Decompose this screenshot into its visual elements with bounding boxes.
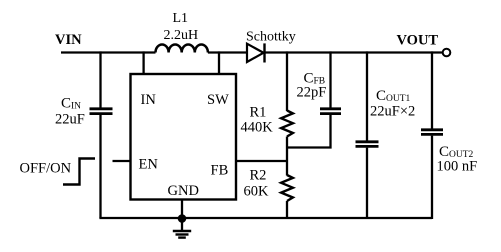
svg-text:L1: L1	[173, 11, 189, 26]
wire CFB down and left to FB node	[286, 115, 331, 148]
capacitor CFB	[320, 109, 341, 114]
wire rail down to R1	[286, 51, 288, 111]
label CIN value	[55, 96, 85, 128]
wire VIN rail down to CIN	[99, 51, 101, 107]
wire COUT2 to bottom rail	[431, 136, 433, 219]
wire rail down to SW pin	[218, 51, 220, 75]
wire VOUT down to COUT2	[431, 51, 433, 128]
pin FB label	[211, 163, 229, 179]
junction ground node	[178, 214, 187, 223]
svg-text:GND: GND	[168, 183, 199, 199]
wire L1 to diode	[208, 51, 247, 53]
label R2 value	[244, 168, 270, 200]
node VOUT label	[397, 33, 439, 49]
label L1 value	[164, 11, 199, 43]
wire R2 to bottom rail	[286, 201, 288, 218]
svg-text:100 nF: 100 nF	[437, 159, 478, 175]
capacitor CIN	[90, 109, 113, 114]
wire VIN to L1	[61, 51, 156, 53]
pin GND label	[168, 183, 199, 199]
svg-text:60K: 60K	[244, 184, 270, 200]
resistor R2	[281, 175, 293, 201]
wire CIN to bottom rail	[99, 115, 101, 218]
wire diode to VOUT	[265, 51, 443, 53]
wire EN pin	[113, 160, 132, 162]
ground	[173, 219, 191, 238]
node VIN label	[55, 32, 82, 48]
resistor R1	[281, 111, 293, 137]
diode Schottky	[247, 43, 265, 62]
node OFF/ON step waveform	[63, 159, 95, 185]
label COUT1 value	[370, 88, 415, 120]
capacitor COUT1	[356, 142, 379, 147]
svg-text:Schottky: Schottky	[246, 30, 296, 45]
label R1 value	[241, 105, 274, 136]
wire bottom rail	[99, 217, 432, 219]
svg-text:SW: SW	[207, 92, 229, 108]
svg-text:IN: IN	[141, 92, 157, 108]
wire rail down to COUT1	[366, 51, 368, 140]
svg-text:VOUT: VOUT	[397, 33, 439, 49]
pin SW label	[207, 92, 229, 108]
node OFF/ON label	[20, 161, 72, 177]
wire GND pin to ground rail	[181, 199, 183, 218]
pin EN label	[139, 157, 159, 173]
inductor L1	[156, 44, 208, 52]
wire COUT1 to bottom rail	[366, 148, 368, 218]
svg-text:VIN: VIN	[55, 32, 82, 48]
wire rail down to IN pin	[142, 51, 144, 75]
label CFB value	[297, 71, 327, 101]
pin IN label	[141, 92, 157, 108]
wire R1 to R2	[286, 137, 288, 176]
svg-text:440K: 440K	[241, 120, 274, 136]
svg-text:22pF: 22pF	[297, 85, 327, 101]
svg-text:FB: FB	[211, 163, 229, 179]
label Schottky	[246, 30, 296, 45]
wire rail down to CFB	[329, 51, 331, 107]
svg-text:EN: EN	[139, 157, 159, 173]
svg-text:22uF: 22uF	[55, 112, 85, 128]
op-amp U1 regulator IC box	[131, 74, 237, 200]
label COUT2 value	[437, 144, 478, 175]
wire FB pin	[236, 160, 288, 162]
node VOUT terminal	[443, 49, 451, 57]
svg-text:OFF/ON: OFF/ON	[20, 161, 72, 177]
capacitor COUT2	[421, 130, 443, 135]
svg-text:22uF×2: 22uF×2	[370, 104, 415, 120]
svg-text:R2: R2	[250, 168, 267, 184]
svg-text:2.2uH: 2.2uH	[164, 28, 199, 43]
svg-text:R1: R1	[250, 105, 267, 121]
